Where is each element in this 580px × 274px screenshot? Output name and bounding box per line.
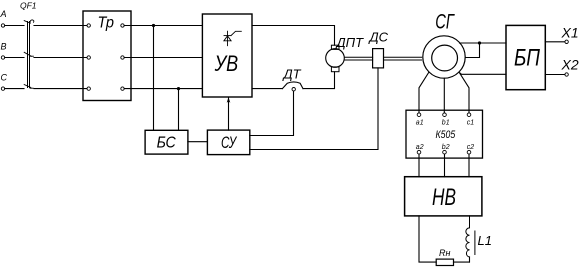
measuring set K505 box [406,110,483,158]
thyristor symbol in UV [224,31,241,46]
Tp terminal right C [121,87,124,90]
motor DPT bottom brush [331,67,339,72]
wire A transformer to UV [124,25,202,27]
svg-text:L1: L1 [478,233,492,248]
Tp terminal right A [121,24,124,27]
wire BS to SU [188,141,208,143]
svg-text:УВ: УВ [214,51,238,76]
svg-text:b2: b2 [442,144,450,151]
svg-text:B: B [1,42,7,52]
wire BP output X2 [545,74,565,76]
shaft DS to SG [384,57,422,60]
wire UV top output to motor [252,26,335,46]
svg-text:с1: с1 [467,120,475,127]
wire UV bottom output [252,88,282,90]
wire SG phase b to K505 [443,78,445,113]
wire SG phase c to K505 [459,72,469,113]
wire SG upper-right to BP [460,42,507,44]
arrowhead [227,97,231,103]
generator SG inner circle [432,45,458,71]
svg-text:К505: К505 [436,129,456,141]
terminal X1 [565,40,568,43]
svg-text:C: C [1,73,8,83]
current sensor DT pickup [292,88,295,91]
terminal X2 [565,73,568,76]
wire SG lower to BP [460,73,506,74]
breaker QF1 pole B [24,52,33,56]
wire A to transformer [34,25,87,27]
svg-text:b1: b1 [442,120,450,127]
motor DPT top brush [331,45,339,49]
wire c2 to NV [468,154,470,177]
control arrow into UV [228,98,230,130]
svg-text:БП: БП [514,44,540,71]
wire BP output X1 [545,41,565,43]
svg-text:X2: X2 [561,56,579,72]
rectifier UV box [202,14,252,97]
load unit NV box [405,177,482,216]
wire DT to SU [250,91,294,136]
svg-text:QF1: QF1 [20,0,37,10]
breaker QF1 linkage bar [28,22,30,88]
current sensor DT bump [282,82,303,89]
K505 terminal a1 [417,113,421,117]
wire Rn to L1 [454,257,470,262]
inductor L1 core [474,231,476,255]
wire A input [5,25,24,27]
control unit BS box [145,130,188,154]
svg-text:СГ: СГ [435,10,455,33]
K505 terminal c2 [467,150,471,154]
terminal C [1,87,4,90]
junction on wire C [177,87,180,90]
breaker QF1 pole C [24,85,33,89]
wire B transformer to UV [124,57,202,59]
svg-text:X1: X1 [561,24,579,40]
K505 terminal a2 [417,150,421,154]
svg-text:Rн: Rн [439,248,450,258]
wire junction C to BS [178,89,180,131]
power unit BP box [506,25,545,89]
svg-text:а1: а1 [416,120,424,127]
wire SG phase a to K505 [419,72,429,113]
terminal A [1,24,4,27]
breaker QF1 pole A [24,20,34,23]
svg-text:а2: а2 [416,144,424,151]
wire B to transformer [34,57,87,59]
svg-text:ДТ: ДТ [282,67,302,82]
K505 terminal c1 [467,113,471,117]
motor DPT body [326,49,345,68]
svg-text:A: A [0,9,7,19]
svg-text:БС: БС [157,134,177,151]
Tp terminal left C [87,87,90,90]
svg-text:НВ: НВ [432,184,456,211]
wire DS to SU [250,68,378,150]
inductor L1 [466,216,470,262]
K505 terminal b1 [443,113,447,117]
wire SG right to junction [466,43,480,58]
wire C transformer to UV [124,88,202,90]
junction on wire A [152,24,155,27]
wire junction A to BS [153,26,155,131]
wire NV left down [419,216,436,262]
Tp terminal left A [87,24,90,27]
svg-text:Тр: Тр [98,15,115,32]
K505 terminal b2 [443,150,447,154]
control unit SU box [207,130,249,155]
svg-text:с2: с2 [467,144,475,151]
svg-text:СУ: СУ [221,134,237,152]
wire B input [5,57,24,59]
generator SG outer circle [423,36,465,78]
terminal B [1,56,4,59]
Tp terminal left B [87,56,90,59]
wire a2 to NV [418,154,420,177]
Tp terminal right B [121,56,124,59]
wire DT bump to motor [303,72,335,89]
transformer Tp box [83,11,131,101]
wire C input [5,88,24,90]
resistor Rn [436,259,453,265]
shaft motor to DS [345,57,373,60]
junction SG output [478,41,481,44]
speed sensor DS box [373,49,384,68]
wire b2 to NV [444,154,446,177]
wire C to transformer [34,88,87,90]
svg-text:ДС: ДС [368,30,389,45]
